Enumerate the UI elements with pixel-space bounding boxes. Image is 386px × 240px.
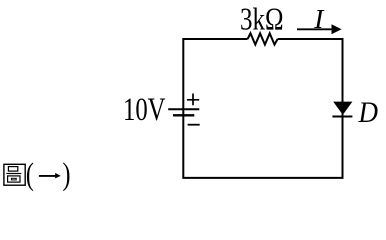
svg-text:3kΩ: 3kΩ [240,1,284,36]
svg-text:(: ( [26,157,34,192]
svg-text:10V: 10V [123,92,166,128]
svg-text:D: D [358,96,379,129]
svg-text:): ) [63,157,71,192]
